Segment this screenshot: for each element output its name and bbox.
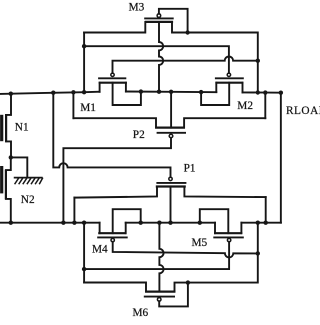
wire M4 drain jog to bottom rail: [113, 209, 141, 233]
node dot right vertical 1 on bottom rail: [256, 221, 260, 225]
transistor P2: [155, 128, 186, 138]
node dot N1 source: [9, 155, 13, 159]
svg-text:P1: P1: [184, 162, 196, 174]
wire P2 source/drain line right: [184, 118, 265, 127]
transistor M6 (diode-connected, bottom): [144, 292, 176, 302]
wire top rail segment middle: [126, 91, 216, 94]
wire P1 center tap down to bottom rail: [170, 187, 172, 223]
node dot right vertical 1 on top rail: [256, 90, 260, 94]
wire M4 gate line down-right to right vertical (dip hop at M5 gate): [113, 242, 258, 258]
transistor P1: [156, 177, 187, 186]
node dot M6 drain: [186, 280, 190, 284]
node dot M5 drain on bottom rail: [198, 221, 202, 225]
wire M6 center tap up to bottom rail (with hops): [159, 223, 163, 292]
wire M2 gate up then left to left vertical: [84, 46, 229, 73]
wire M6 gate to drain loop: [159, 283, 188, 307]
wire M2 channel dip right: [242, 83, 244, 93]
node dot N2 source on bottom rail: [9, 221, 13, 225]
node dot left vertical on top rail: [82, 90, 86, 94]
wire N1/N2 junction to ground stub: [11, 157, 28, 177]
wire N2 top leg: [6, 157, 11, 170]
transistor M5 (cross-coupled lower right): [213, 233, 244, 242]
node dot N1 drain on top rail: [9, 92, 13, 96]
wire M1 drain jog to rail: [113, 83, 141, 105]
node dot M2 drain on rail: [199, 90, 203, 94]
node dot M1 drain on rail: [139, 89, 143, 93]
node dot M3 drain: [185, 30, 189, 34]
node dot M4 drain on bottom rail: [139, 221, 143, 225]
node dot M5 gate at left vertical: [82, 267, 86, 271]
wire N2 bottom leg to bottom rail: [6, 199, 11, 223]
node dot left vertical on bottom rail: [82, 221, 86, 225]
node dot right vertical 2 on top rail: [263, 90, 267, 94]
node dot M1 gate at right vertical: [256, 59, 260, 63]
wire left vertical lower (x=84): [83, 223, 85, 283]
wire M3 right leg to drain node: [172, 22, 188, 33]
svg-text:M4: M4: [92, 243, 108, 255]
wire M2 channel dip left: [215, 83, 217, 92]
wire M2 drain jog to rail: [201, 83, 229, 105]
transistor M4 (cross-coupled lower left): [97, 233, 128, 242]
svg-text:M2: M2: [237, 100, 253, 112]
wire P1 source/drain line left: [74, 187, 157, 198]
svg-text:P2: P2: [133, 129, 145, 141]
node dot M4 gate at right vertical: [256, 251, 260, 255]
wire N1 bottom leg: [6, 141, 11, 157]
wire bottom rail segment right: [241, 222, 281, 224]
wire P2 S/D vertical from rail: [72, 92, 74, 118]
wire M5 channel dip left: [214, 223, 216, 234]
node dot left vertical / M2 gate line: [82, 44, 86, 48]
svg-text:RLOAD: RLOAD: [286, 105, 320, 117]
wire bottom rail segment middle: [126, 222, 215, 224]
wire M3 drain to right vertical: [188, 33, 258, 93]
svg-text:M3: M3: [129, 1, 145, 13]
node dot RLOAD on top rail: [279, 91, 283, 95]
wire P2 center tap up to rail: [170, 92, 172, 128]
node dot P2 tap on top rail: [169, 90, 173, 94]
svg-text:M6: M6: [133, 307, 149, 319]
transistor N1 (left input device, rotated): [2, 114, 6, 142]
node dot M6 tap on bottom rail: [157, 221, 161, 225]
transistor M2 (cross-coupled right): [215, 73, 244, 83]
wire A: left node down then right to P1 gate (hop over P2 gate wire): [53, 93, 170, 177]
wire P1 S/D right vertical to bottom rail: [265, 197, 267, 223]
node dot P2 S/D vertical on top rail: [71, 90, 75, 94]
wire M6 drain to right vertical up to bottom rail: [188, 223, 258, 283]
node dot P2 gate on bottom rail: [61, 221, 65, 225]
node dot P1 tap on bottom rail: [168, 221, 172, 225]
wire M6 left leg: [84, 283, 146, 292]
wire M5 channel dip right: [240, 223, 242, 234]
wire M1 gate line to right vertical (hop over M2 gate wire): [113, 56, 258, 73]
wire left vertical upper (x=84): [83, 33, 85, 93]
wire P1 source/drain line right: [184, 187, 265, 198]
wire bottom rail segment left: [0, 222, 100, 224]
transistor M3 (diode-connected, top): [144, 14, 174, 22]
resistor RLOAD vertical wire: [280, 93, 282, 223]
wire M1 channel dip left: [99, 83, 101, 92]
wire P1 S/D left vertical to bottom rail: [73, 198, 75, 223]
node dot P1 left leg on bottom rail: [72, 221, 76, 225]
wire M5 drain jog to bottom rail: [200, 209, 229, 233]
wire M3 center tap down to top rail (with hops): [159, 22, 163, 92]
node dot P1 right leg on bottom rail: [264, 221, 268, 225]
transistor M1 (cross-coupled left): [98, 73, 127, 83]
svg-text:M1: M1: [80, 102, 96, 114]
wire M6 right leg to drain node: [175, 283, 188, 292]
wire M3 left leg: [84, 22, 145, 33]
wire P2 source/drain line left: [73, 118, 156, 127]
wire top rail segment right: [243, 91, 281, 93]
wire N1 top leg to rail: [6, 94, 11, 115]
node dot wire A on top rail: [51, 91, 55, 95]
svg-text:N1: N1: [15, 121, 29, 133]
node dot M3 tap on top rail: [157, 90, 161, 94]
svg-text:N2: N2: [21, 194, 35, 206]
wire M4 channel dip right: [125, 223, 127, 234]
wire M5 gate down then left to left vertical: [84, 242, 229, 269]
wire M4 channel dip left: [99, 223, 101, 234]
ground: [15, 178, 43, 184]
wire P2 S/D right vertical up to rail: [264, 93, 266, 119]
wire M3 gate to drain loop: [159, 9, 188, 33]
transistor N2 (left input device lower, rotated): [2, 166, 6, 199]
svg-text:M5: M5: [192, 237, 208, 249]
wire M1 channel dip right: [125, 83, 127, 92]
wire top rail segment left: [0, 92, 100, 94]
wire P2 gate down-left to bottom rail: [63, 138, 171, 223]
